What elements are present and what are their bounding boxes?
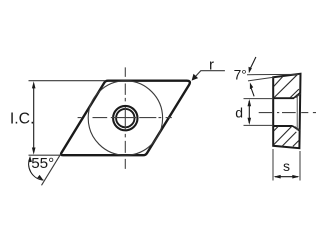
d dimension line [248, 101, 250, 123]
d top arrowhead [248, 99, 252, 106]
bottom block hatch lines [274, 126, 279, 131]
svg-text:r: r [209, 57, 214, 74]
I.C. top arrowhead [32, 81, 36, 88]
svg-text:s: s [283, 158, 290, 174]
countersink top edge (double line) [294, 93, 301, 99]
s right extension line [299, 151, 301, 181]
section horizontal centerline [259, 112, 316, 114]
countersink bottom edge (double line) [293, 126, 300, 131]
countersink opening silhouette line [296, 94, 298, 130]
insert outline (55-degree rhombus) [61, 81, 190, 156]
s right arrowhead [292, 175, 299, 179]
s dimension line [275, 176, 298, 178]
hole top line [273, 97, 294, 99]
55-degree extension line (left edge extended) [42, 155, 61, 185]
7-degree upper arrow [250, 57, 256, 69]
r leader arrowhead [192, 74, 199, 81]
inscribed circle [88, 81, 162, 155]
svg-text:7°: 7° [234, 68, 247, 83]
section body outline [273, 74, 300, 148]
hole bore circle [116, 109, 134, 127]
svg-text:d: d [235, 104, 243, 120]
I.C. bottom arrowhead [32, 148, 36, 155]
s left arrowhead [274, 175, 281, 179]
7-degree slanted line (top edge extension) [248, 77, 274, 81]
svg-text:I.C.: I.C. [10, 111, 35, 128]
horizontal centerline [78, 117, 172, 119]
55-degree arc top arrowhead [28, 156, 32, 163]
7-degree horizontal reference line [247, 73, 300, 75]
55-degree arc [29, 157, 44, 180]
hole countersink circle [113, 106, 137, 130]
top block hatch lines [274, 76, 283, 86]
I.C. top extension line [29, 80, 106, 82]
r leader line [193, 71, 225, 79]
d bottom extension line [244, 124, 274, 126]
d top extension line [244, 98, 274, 100]
d bottom arrowhead [248, 118, 252, 125]
I.C. dimension line [33, 84, 35, 152]
s left extension line [272, 149, 274, 181]
hole bottom line [273, 125, 293, 127]
55-degree arc bottom arrowhead [37, 175, 43, 180]
vertical centerline [124, 67, 126, 168]
7-degree lower arrow [251, 88, 254, 96]
I.C. bottom extension line [29, 154, 62, 156]
svg-text:55°: 55° [31, 155, 54, 172]
